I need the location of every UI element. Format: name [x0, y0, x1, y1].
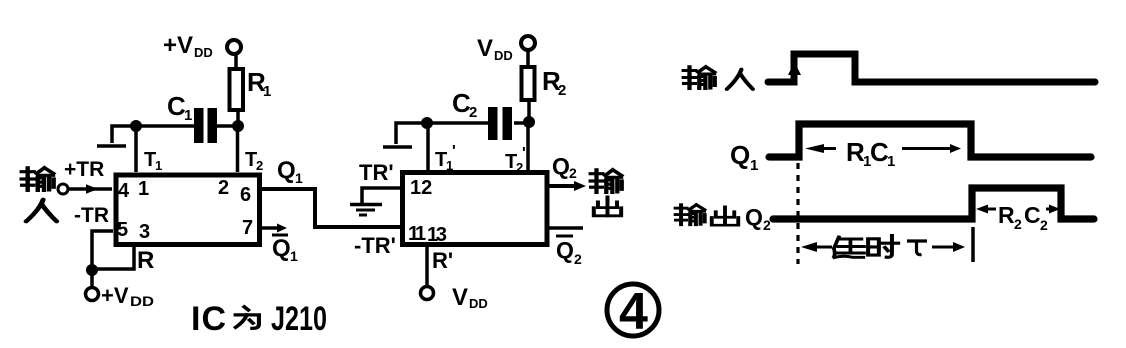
IC U1 (J210 first half): [116, 175, 260, 245]
svg-text:R: R: [137, 247, 154, 274]
output Q2bar wire: [549, 226, 583, 230]
svg-text:V: V: [477, 35, 493, 62]
dimension R2C2: [976, 202, 1060, 233]
svg-text:V: V: [452, 284, 468, 311]
node input terminal 输入: [22, 168, 68, 222]
svg-text:2: 2: [218, 177, 229, 199]
label T1': [435, 143, 456, 173]
junction node T2': [523, 116, 535, 128]
label Q1: [277, 157, 303, 186]
dashed reference line: [796, 163, 799, 264]
figure number 4: [607, 283, 659, 341]
output Q2 wire with arrow: [549, 181, 586, 191]
svg-text:R: R: [998, 202, 1015, 228]
svg-text:7: 7: [242, 217, 253, 239]
svg-text:1: 1: [415, 223, 426, 245]
IC U2 (J210 second half): [403, 173, 548, 245]
svg-text:R': R': [432, 248, 453, 273]
svg-text:1: 1: [290, 248, 298, 264]
svg-text:1: 1: [184, 107, 192, 124]
svg-text:12: 12: [410, 177, 432, 199]
stub terminal left of C2: [383, 123, 424, 147]
svg-text:2: 2: [1014, 216, 1022, 232]
dimension 延时tau: [801, 236, 965, 258]
svg-text:': ': [522, 145, 526, 162]
tick line: [971, 227, 975, 262]
junction node T2: [232, 120, 244, 132]
waveform Q2 trace: [773, 188, 1094, 219]
svg-text:4: 4: [619, 283, 648, 341]
svg-text:+V: +V: [163, 32, 193, 59]
svg-text:C: C: [1024, 202, 1041, 228]
terminal +Vdd bottom: [86, 283, 155, 309]
capacitor C1: [140, 91, 236, 143]
wire T2 pin: [236, 126, 240, 172]
svg-text:2: 2: [1040, 217, 1048, 233]
junction dot: [86, 264, 98, 276]
svg-text:13: 13: [427, 224, 447, 246]
svg-text:1: 1: [446, 158, 453, 173]
svg-text:TR': TR': [359, 160, 394, 185]
wire input to pin4 with arrow: [68, 184, 112, 194]
svg-text:2: 2: [516, 160, 523, 175]
svg-text:Q: Q: [745, 204, 763, 230]
label 输入 (waveform input): [684, 67, 753, 89]
svg-text:Q: Q: [272, 235, 291, 262]
label T2: [245, 149, 263, 173]
label Q1bar: [272, 235, 298, 264]
resistor R2: [522, 50, 567, 122]
svg-text:Q: Q: [556, 237, 574, 263]
wire TR' to ground: [362, 188, 400, 203]
pin 11: [408, 223, 426, 245]
svg-text:DD: DD: [194, 45, 213, 60]
wire pin5 to Vdd junction: [92, 231, 113, 287]
wire T2' pin: [526, 122, 530, 170]
stub terminal left of C1: [97, 126, 133, 146]
svg-text:1: 1: [138, 178, 149, 200]
svg-text:DD: DD: [130, 293, 154, 309]
svg-text:1: 1: [263, 83, 271, 100]
svg-text:+TR: +TR: [64, 158, 104, 181]
svg-text:Q: Q: [552, 153, 570, 179]
waveform Q1 trace: [769, 124, 1091, 157]
capacitor C2: [431, 88, 527, 140]
ground: [350, 205, 382, 216]
svg-text:1: 1: [295, 170, 303, 186]
svg-text:2: 2: [574, 251, 582, 267]
label T1: [144, 149, 162, 173]
label Q2bar: [556, 236, 582, 267]
svg-text:2: 2: [469, 104, 477, 121]
terminal Vdd bottom: [421, 284, 488, 311]
svg-text:5: 5: [117, 219, 128, 241]
svg-text:-TR': -TR': [354, 233, 396, 258]
wire Q1 output to pin 11 of U2: [262, 189, 400, 227]
svg-text:3: 3: [139, 221, 150, 243]
svg-text:Q: Q: [730, 140, 750, 170]
svg-text:+V: +V: [101, 283, 129, 308]
output Q1bar stub with arrow: [262, 224, 287, 233]
svg-text:-TR: -TR: [74, 204, 109, 227]
svg-text:6: 6: [240, 184, 251, 206]
junction node T1': [421, 117, 433, 129]
svg-text:': ': [452, 143, 456, 160]
waveform input trace: [768, 54, 1095, 82]
svg-text:1: 1: [887, 153, 895, 170]
svg-text:2: 2: [558, 82, 566, 99]
caption IC为J210: [191, 300, 327, 338]
label 输出 (output) vertical: [591, 170, 622, 216]
svg-text:DD: DD: [469, 296, 488, 311]
wire T1 pin: [134, 126, 138, 172]
label T2': [505, 145, 526, 175]
resistor R1: [230, 54, 272, 126]
svg-text:1: 1: [750, 157, 758, 174]
svg-text:Q: Q: [277, 157, 296, 184]
svg-text:4: 4: [118, 180, 130, 202]
wire R' pin: [425, 247, 429, 286]
label Q1 (waveform): [730, 140, 758, 174]
svg-text:2: 2: [256, 158, 263, 173]
terminal Vdd top: [477, 35, 535, 63]
svg-text:IC: IC: [191, 300, 226, 338]
svg-text:J210: J210: [271, 300, 327, 338]
label 输出Q2 (waveform): [676, 204, 771, 233]
junction node T1: [130, 120, 142, 132]
dimension R1C1: [805, 137, 961, 170]
svg-text:2: 2: [569, 165, 577, 181]
terminal +Vdd top: [163, 32, 241, 60]
svg-text:DD: DD: [494, 48, 513, 63]
svg-text:1: 1: [155, 158, 162, 173]
label Q2: [552, 153, 577, 181]
wire R pin: [94, 246, 134, 269]
wire T1' pin: [426, 123, 430, 170]
